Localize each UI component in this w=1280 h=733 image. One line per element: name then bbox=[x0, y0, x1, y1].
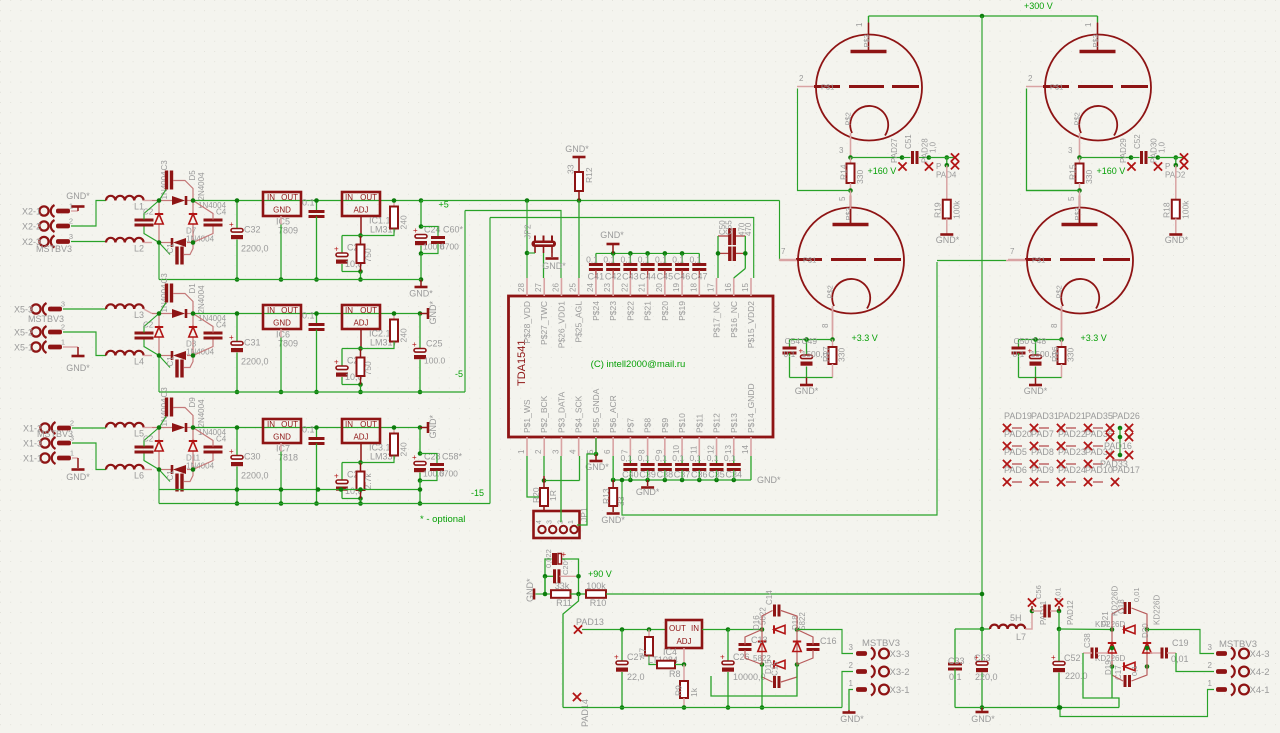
svg-text:GND*: GND* bbox=[601, 515, 625, 525]
svg-text:IN: IN bbox=[267, 306, 275, 315]
svg-text:C2: C2 bbox=[143, 208, 154, 217]
svg-text:0,1: 0,1 bbox=[689, 453, 701, 463]
capacitor C50 0.1 bbox=[1012, 336, 1030, 378]
wire R11 junction down to rail bbox=[563, 594, 579, 708]
wire pin3 to JP1 bbox=[560, 456, 562, 522]
svg-text:R8: R8 bbox=[669, 669, 681, 679]
wire -5 net to chip pin26 bbox=[465, 211, 561, 279]
svg-text:-5: -5 bbox=[455, 369, 463, 379]
capacitor C bottom of bridge X2 bbox=[159, 243, 193, 265]
svg-text:C19: C19 bbox=[1172, 638, 1189, 648]
resistor R10 100k bbox=[586, 581, 606, 608]
resistor 240 row1 bbox=[361, 198, 409, 235]
wire rail row1 top bbox=[157, 198, 421, 203]
resistor R19 100k bbox=[933, 165, 962, 234]
pin 6 TDA1541 bottom bbox=[603, 395, 618, 456]
capacitor C34 0,1 bbox=[724, 453, 742, 480]
svg-text:7: 7 bbox=[781, 247, 786, 256]
ground GND* row1 bbox=[409, 280, 433, 299]
svg-text:2N4004: 2N4004 bbox=[197, 172, 206, 201]
svg-text:0,1: 0,1 bbox=[724, 453, 736, 463]
pin 19 TDA1541 top bbox=[672, 278, 687, 321]
svg-text:0.1: 0.1 bbox=[302, 425, 315, 435]
wire bridge D16 frame bbox=[728, 627, 799, 667]
jumper JP2 bbox=[523, 224, 557, 253]
label MSTBV3 X2 bbox=[36, 244, 72, 254]
label MSTBV3 X5 bbox=[28, 314, 64, 324]
svg-text:C13: C13 bbox=[751, 635, 768, 645]
svg-text:750: 750 bbox=[363, 248, 373, 262]
wire bus bottom decoupling bbox=[611, 478, 751, 483]
svg-text:PAD12: PAD12 bbox=[1066, 600, 1075, 625]
capacitor C top of bridge X5 bbox=[159, 284, 193, 314]
svg-text:P$15_VDD2: P$15_VDD2 bbox=[746, 301, 756, 349]
pad PAD29 bbox=[1119, 138, 1136, 171]
capacitor C27 22,0 bbox=[614, 630, 645, 710]
svg-text:C35: C35 bbox=[708, 470, 725, 480]
pin 3 TDA1541 bottom bbox=[551, 391, 566, 456]
svg-text:P$2: P$2 bbox=[844, 112, 853, 125]
svg-text:P$12: P$12 bbox=[712, 413, 722, 433]
svg-text:4: 4 bbox=[536, 520, 543, 524]
svg-text:P$5_GNDA: P$5_GNDA bbox=[591, 388, 601, 433]
wire rail row2 top bbox=[157, 311, 420, 316]
svg-text:0,1: 0,1 bbox=[655, 453, 667, 463]
diode D17 5822 bbox=[758, 612, 807, 652]
svg-text:PAD5: PAD5 bbox=[1004, 447, 1027, 457]
wire bus top decoupling bbox=[596, 251, 699, 256]
diode D3 1N4004 bottom bbox=[172, 340, 215, 361]
capacitor C58* 6700 bbox=[420, 452, 463, 481]
pad PAD36 bbox=[1085, 429, 1113, 439]
svg-text:+3.3 V: +3.3 V bbox=[852, 333, 878, 343]
svg-text:R11: R11 bbox=[556, 598, 572, 608]
ground GND* R13 bbox=[601, 514, 625, 526]
inductor L4 bbox=[106, 351, 152, 367]
svg-text:C34: C34 bbox=[726, 470, 743, 480]
svg-text:R12: R12 bbox=[584, 167, 594, 183]
svg-text:2: 2 bbox=[1208, 661, 1213, 670]
svg-text:1,0: 1,0 bbox=[929, 141, 938, 153]
wire R15 cathode junction bbox=[1077, 155, 1131, 160]
svg-text:6700: 6700 bbox=[439, 469, 458, 479]
svg-text:+: + bbox=[412, 340, 417, 349]
svg-text:ADJ: ADJ bbox=[676, 637, 691, 646]
svg-text:GND: GND bbox=[273, 433, 291, 442]
svg-text:330: 330 bbox=[837, 348, 847, 362]
svg-text:PAD6: PAD6 bbox=[1004, 465, 1027, 475]
capacitor C55 470 bbox=[718, 222, 753, 261]
connector X2-1 bbox=[22, 202, 73, 218]
wire V2 grid feedback bbox=[1027, 89, 1080, 191]
wire bus to tube V4 grid bbox=[620, 262, 937, 515]
capacitor C15 bottom bbox=[762, 665, 797, 689]
svg-text:1: 1 bbox=[70, 449, 74, 458]
svg-text:1: 1 bbox=[568, 520, 575, 524]
svg-text:1: 1 bbox=[517, 449, 526, 454]
svg-text:8: 8 bbox=[1050, 323, 1059, 328]
svg-text:2: 2 bbox=[534, 449, 543, 454]
svg-text:1500,0: 1500,0 bbox=[1031, 349, 1057, 359]
power +160 label bbox=[868, 166, 897, 176]
svg-text:C30: C30 bbox=[244, 452, 261, 462]
svg-text:5: 5 bbox=[838, 196, 847, 201]
svg-text:X4-3: X4-3 bbox=[1250, 649, 1270, 660]
capacitor C bottom of bridge X5 bbox=[159, 356, 193, 378]
power +300 V rail bbox=[869, 1, 1098, 18]
capacitor C20 0,022 bbox=[544, 549, 570, 594]
svg-text:R20: R20 bbox=[531, 487, 541, 503]
connector X4-2 bbox=[1208, 661, 1270, 678]
svg-text:IN: IN bbox=[345, 193, 353, 202]
resistor R16 330 cathode bbox=[1050, 340, 1076, 378]
capacitor 0.1 row2 bbox=[302, 311, 325, 395]
label MSTBV3 X3 bbox=[862, 638, 900, 649]
pad X mark r2c4 bbox=[1084, 442, 1103, 450]
pad PAD31 bbox=[1031, 411, 1059, 421]
resistor R7 4,7 bbox=[639, 630, 658, 665]
svg-text:+3.3 V: +3.3 V bbox=[1081, 333, 1107, 343]
pad PAD35 bbox=[1085, 411, 1113, 421]
voltage regulator IC7 7818 bbox=[263, 419, 301, 506]
svg-text:0.1: 0.1 bbox=[302, 198, 315, 208]
diode D5 1N4004 top bbox=[160, 160, 186, 205]
svg-text:X1-3: X1-3 bbox=[23, 439, 42, 449]
pad PAD8 bbox=[1031, 447, 1054, 457]
svg-text:PAD35: PAD35 bbox=[1085, 411, 1113, 421]
svg-text:PAD19: PAD19 bbox=[1004, 411, 1032, 421]
inductor L6 bbox=[106, 465, 152, 481]
pad X mark r3c2 bbox=[1030, 460, 1049, 468]
svg-text:0,01: 0,01 bbox=[1171, 654, 1189, 664]
svg-text:KD226D: KD226D bbox=[1095, 620, 1125, 629]
svg-text:X2-2: X2-2 bbox=[22, 222, 41, 232]
svg-text:22,0: 22,0 bbox=[627, 672, 645, 682]
inductor L3 bbox=[106, 304, 152, 320]
svg-text:P$17_NC: P$17_NC bbox=[712, 301, 722, 338]
svg-text:MSTBV3: MSTBV3 bbox=[862, 638, 900, 649]
svg-text:220.0: 220.0 bbox=[1065, 671, 1088, 681]
svg-text:5: 5 bbox=[1067, 196, 1076, 201]
ground GND* pin5 bbox=[585, 452, 609, 472]
pin 18 TDA1541 top bbox=[689, 278, 699, 296]
svg-text:JP2: JP2 bbox=[523, 224, 533, 239]
svg-text:2: 2 bbox=[799, 74, 804, 83]
wire bridge output to X3-3 bbox=[797, 630, 853, 654]
svg-text:OUT: OUT bbox=[360, 420, 377, 429]
svg-text:PAD14: PAD14 bbox=[580, 699, 590, 727]
svg-text:C16: C16 bbox=[820, 636, 837, 646]
wire X5-3 to L3 bbox=[63, 308, 106, 310]
svg-text:C41: C41 bbox=[588, 272, 605, 282]
svg-text:GND*: GND* bbox=[1165, 235, 1189, 245]
svg-text:X3-2: X3-2 bbox=[890, 667, 910, 678]
svg-text:5822: 5822 bbox=[798, 612, 807, 630]
pad X mark r2c1 bbox=[1003, 442, 1022, 450]
svg-text:P$8: P$8 bbox=[643, 418, 653, 433]
pad PAD26 bbox=[1112, 411, 1140, 421]
svg-text:PAD24: PAD24 bbox=[1058, 465, 1086, 475]
svg-text:P$2: P$2 bbox=[1055, 285, 1064, 298]
pad PAD32 bbox=[1085, 447, 1113, 457]
pin 2 TDA1541 bottom bbox=[534, 395, 549, 456]
svg-text:GND*: GND* bbox=[525, 578, 535, 602]
pad PAD7 bbox=[1031, 429, 1054, 439]
svg-text:IN: IN bbox=[267, 193, 275, 202]
capacitor C28 100,0 bbox=[412, 425, 445, 483]
wire X1-3 to L6 bbox=[72, 443, 106, 470]
svg-text:C54: C54 bbox=[785, 336, 801, 346]
inductor L2 bbox=[106, 238, 152, 254]
svg-text:R19: R19 bbox=[933, 202, 943, 218]
resistor R8 bbox=[657, 661, 686, 679]
svg-text:PAD8: PAD8 bbox=[1031, 447, 1054, 457]
svg-text:33: 33 bbox=[566, 164, 576, 174]
pin 28 TDA1541 top bbox=[517, 278, 532, 344]
diode D21 KD226D bbox=[1095, 611, 1135, 634]
svg-text:100.0: 100.0 bbox=[424, 356, 446, 366]
svg-text:P$23: P$23 bbox=[608, 301, 618, 321]
svg-text:2: 2 bbox=[69, 217, 73, 226]
svg-text:GND*: GND* bbox=[66, 363, 90, 373]
svg-text:+: + bbox=[1051, 653, 1056, 662]
pad PAD6 bbox=[1004, 465, 1027, 475]
resistor R13 33 bbox=[601, 478, 626, 512]
svg-text:C26: C26 bbox=[733, 652, 750, 662]
pad X mark r4c3 bbox=[1057, 478, 1076, 486]
svg-text:C60*: C60* bbox=[443, 225, 464, 235]
diode D10 1N4004 right bbox=[188, 397, 227, 451]
svg-text:4: 4 bbox=[569, 449, 578, 454]
svg-text:330: 330 bbox=[1066, 348, 1076, 362]
wire pin17 loop bbox=[716, 236, 721, 278]
pin 9 TDA1541 bottom bbox=[655, 418, 670, 456]
wire JP1 pin1 to gnd bbox=[577, 454, 596, 525]
svg-text:R13: R13 bbox=[601, 488, 611, 504]
resistor R14 330 bbox=[839, 158, 866, 193]
svg-text:C40: C40 bbox=[622, 470, 639, 480]
wire bridge bottom to rail bbox=[760, 665, 765, 710]
svg-text:OUT: OUT bbox=[281, 306, 298, 315]
svg-text:2: 2 bbox=[849, 661, 854, 670]
svg-text:IN: IN bbox=[267, 420, 275, 429]
pad X mark r3c4 bbox=[1084, 460, 1103, 468]
svg-text:L6: L6 bbox=[134, 471, 144, 481]
svg-text:GND*: GND* bbox=[409, 289, 433, 299]
svg-text:P$9: P$9 bbox=[660, 418, 670, 433]
pad PAD19 bbox=[1004, 411, 1032, 421]
pad X mark r2c2 bbox=[1030, 442, 1049, 450]
wire pin14 to bus bbox=[751, 456, 781, 485]
svg-text:P$20: P$20 bbox=[660, 301, 670, 321]
ground X1 GND* bbox=[66, 470, 90, 483]
resistor R9 1k bbox=[674, 665, 700, 710]
svg-text:L3: L3 bbox=[134, 310, 144, 320]
svg-text:PAD9: PAD9 bbox=[1031, 465, 1054, 475]
capacitor C left of bridge X2 bbox=[135, 201, 160, 243]
svg-text:GND*: GND* bbox=[971, 714, 995, 724]
pin 8 TDA1541 bottom bbox=[638, 418, 653, 456]
svg-text:(C) intell2000@mail.ru: (C) intell2000@mail.ru bbox=[591, 359, 686, 370]
wire PAD12 down bbox=[1057, 611, 1062, 631]
svg-text:P$1: P$1 bbox=[803, 256, 816, 265]
svg-text:PAD21: PAD21 bbox=[1058, 411, 1086, 421]
IC U1 TDA1541 body bbox=[509, 296, 774, 437]
resistor R15 330 bbox=[1068, 158, 1095, 193]
capacitor C bottom of bridge X1 bbox=[159, 470, 193, 492]
capacitor C top of bridge X2 bbox=[159, 171, 193, 201]
capacitor C41 0,1 bbox=[586, 253, 604, 281]
svg-text:GND*: GND* bbox=[757, 475, 781, 485]
wire -15 net to chip pin15 bbox=[490, 218, 754, 279]
svg-text:D9: D9 bbox=[188, 397, 197, 408]
wire V1 plate bbox=[868, 16, 870, 22]
svg-text:C33: C33 bbox=[948, 656, 965, 666]
capacitor C16 bbox=[797, 630, 837, 665]
pad PAD14 bbox=[573, 693, 590, 727]
junction dots bridge X2 bbox=[157, 240, 196, 245]
capacitor C47 0,1 bbox=[689, 253, 707, 281]
svg-text:10000,0: 10000,0 bbox=[733, 672, 766, 682]
power +5 label bbox=[439, 200, 449, 210]
ground GND* bottom bus bbox=[636, 480, 660, 497]
inductor L7 5H bbox=[990, 611, 1032, 642]
svg-text:0,1: 0,1 bbox=[586, 255, 598, 265]
svg-text:GND*: GND* bbox=[428, 301, 438, 325]
svg-text:TDA1541: TDA1541 bbox=[516, 340, 528, 386]
wire R12 to chip pin25 bbox=[578, 201, 580, 279]
svg-text:3: 3 bbox=[839, 146, 844, 155]
capacitor 0.1 row1 bbox=[302, 198, 325, 282]
wire JP2 pin2 to chip pin27 bbox=[543, 253, 545, 278]
svg-text:17: 17 bbox=[707, 283, 716, 292]
svg-text:C4: C4 bbox=[216, 321, 227, 330]
svg-text:P$13: P$13 bbox=[729, 413, 739, 433]
resistor 240 row3 bbox=[361, 425, 409, 462]
svg-text:GND*: GND* bbox=[428, 415, 438, 439]
svg-text:C51: C51 bbox=[904, 134, 913, 149]
svg-text:OUT: OUT bbox=[281, 420, 298, 429]
wire C19 to X4-2 bbox=[1176, 653, 1214, 672]
diode D7 1N4004 bottom bbox=[172, 227, 215, 248]
capacitor C24 100,0 bbox=[413, 198, 445, 256]
voltage regulator IC5 7809 bbox=[263, 192, 301, 282]
inductor L1 bbox=[106, 196, 152, 212]
pin 24 TDA1541 top bbox=[586, 278, 601, 321]
pad PAD2 bbox=[1158, 153, 1188, 179]
svg-text:3: 3 bbox=[1068, 146, 1073, 155]
diode D4 1N4004 left bbox=[155, 327, 163, 337]
voltage regulator IC6 7809 bbox=[263, 305, 301, 394]
wire L7 input bbox=[955, 627, 990, 632]
capacitor C51 1,0 bbox=[902, 134, 949, 171]
svg-text:23: 23 bbox=[603, 283, 612, 292]
svg-text:3: 3 bbox=[551, 449, 560, 454]
svg-text:330: 330 bbox=[1084, 170, 1094, 184]
svg-text:220,0: 220,0 bbox=[975, 672, 998, 682]
svg-text:C56: C56 bbox=[1034, 585, 1043, 599]
capacitor C42 0,1 bbox=[603, 253, 621, 281]
connector X4-1 bbox=[1208, 679, 1270, 696]
wire +300 V down bbox=[981, 16, 983, 629]
wire rail B to X4-1 bbox=[1058, 690, 1214, 717]
pad PAD5 bbox=[1004, 447, 1027, 457]
wire pin5 to gnd node bbox=[595, 438, 597, 454]
svg-text:P$7: P$7 bbox=[625, 418, 635, 433]
svg-text:C3: C3 bbox=[160, 387, 169, 398]
note optional bbox=[420, 514, 465, 525]
svg-text:C50: C50 bbox=[1014, 336, 1030, 346]
wire rail row3 bottom bbox=[159, 218, 490, 504]
svg-text:0,1: 0,1 bbox=[707, 453, 719, 463]
connector X2-3 bbox=[22, 232, 73, 248]
capacitor C 0,01 pads bbox=[1032, 587, 1063, 617]
tube V4 triode bbox=[1008, 189, 1133, 331]
pin 27 TDA1541 top bbox=[534, 278, 549, 345]
svg-text:+: + bbox=[334, 245, 339, 254]
svg-text:GND*: GND* bbox=[936, 235, 960, 245]
svg-text:240: 240 bbox=[399, 442, 409, 456]
wire bridge X5 frame bbox=[152, 314, 193, 393]
pad X mark r2c3 bbox=[1057, 442, 1076, 450]
capacitor C37 0,1 bbox=[672, 453, 690, 480]
svg-text:D1: D1 bbox=[188, 283, 197, 294]
svg-text:X5-3: X5-3 bbox=[14, 305, 33, 315]
connector JP1 bbox=[534, 507, 590, 538]
svg-text:C36: C36 bbox=[691, 470, 708, 480]
svg-text:R10: R10 bbox=[590, 598, 607, 608]
capacitor C57 0,1 bbox=[543, 559, 581, 594]
pin 13 TDA1541 bottom bbox=[724, 413, 739, 456]
capacitor C25 100.0 bbox=[412, 311, 446, 394]
ground GND* R19 bbox=[936, 235, 960, 246]
resistor 750 row1 bbox=[357, 236, 374, 272]
svg-text:R14: R14 bbox=[839, 164, 849, 180]
pad PAD4 bbox=[929, 153, 959, 179]
svg-text:C2: C2 bbox=[143, 321, 154, 330]
svg-text:P$3: P$3 bbox=[1091, 34, 1100, 47]
connector X1-2 bbox=[23, 419, 74, 435]
resistor 2.7k row3 bbox=[357, 463, 374, 499]
svg-text:0,022: 0,022 bbox=[544, 549, 553, 568]
svg-text:P$22: P$22 bbox=[625, 301, 635, 321]
wire +5 net to chip bbox=[421, 198, 780, 260]
power -15 label bbox=[471, 488, 484, 498]
wire X1-1 to gnd bbox=[72, 458, 78, 468]
capacitor C44 0,1 bbox=[638, 253, 656, 281]
ground X2 GND* bbox=[66, 191, 90, 207]
wire X2-3 to L2 bbox=[71, 241, 106, 243]
pad PAD11 bbox=[1028, 585, 1048, 625]
svg-text:GND*: GND* bbox=[840, 714, 864, 724]
connector X3-3 bbox=[849, 643, 910, 660]
wire bottom rail middle bbox=[563, 707, 842, 709]
pin 17 TDA1541 top bbox=[707, 278, 722, 338]
svg-text:1: 1 bbox=[61, 338, 65, 347]
pad PAD21 bbox=[1058, 411, 1086, 421]
svg-text:4,7: 4,7 bbox=[639, 647, 648, 659]
svg-text:0,1: 0,1 bbox=[689, 255, 701, 265]
svg-text:C1: C1 bbox=[166, 470, 175, 481]
pad X mark r1c4 bbox=[1084, 424, 1103, 432]
diode D19 KD226D bbox=[1095, 654, 1135, 675]
svg-text:C42: C42 bbox=[605, 272, 622, 282]
wire rail right bbox=[955, 707, 1119, 709]
svg-text:C45: C45 bbox=[657, 272, 674, 282]
svg-text:D21: D21 bbox=[1101, 611, 1110, 626]
capacitor C52 220.0 bbox=[1051, 629, 1088, 710]
diode D20 KD226D bbox=[1108, 643, 1123, 680]
